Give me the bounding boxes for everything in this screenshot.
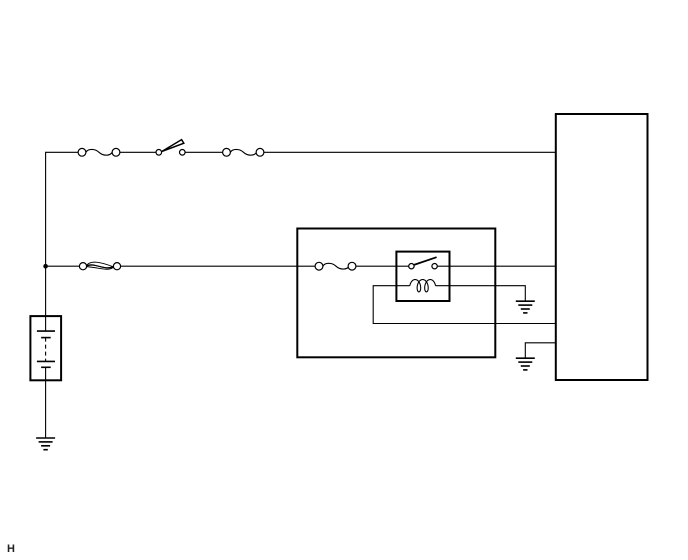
battery	[30, 316, 61, 380]
wire	[436, 286, 526, 301]
fuse F1	[78, 148, 120, 156]
svg-text:H: H	[7, 543, 15, 555]
switch S1	[156, 140, 185, 156]
wire	[46, 265, 80, 267]
wire	[120, 151, 156, 153]
ground G1	[516, 301, 535, 313]
fusible link FL	[79, 262, 120, 270]
wire	[356, 265, 409, 267]
wire	[437, 265, 556, 267]
fuse F2	[223, 148, 264, 156]
wire	[46, 152, 79, 331]
relay coil	[410, 280, 436, 292]
wire	[264, 151, 556, 153]
wire	[45, 367, 47, 438]
relay R1 box	[396, 252, 449, 301]
ECU box	[556, 114, 648, 380]
wire	[121, 265, 316, 267]
wire	[373, 286, 556, 324]
wire	[525, 343, 556, 358]
relay block box	[297, 229, 495, 358]
relay contact	[409, 257, 438, 269]
fuse F3	[315, 262, 356, 270]
wire	[185, 151, 223, 153]
ground G2	[516, 358, 535, 370]
ground G3	[36, 438, 55, 450]
node junction	[43, 264, 48, 269]
